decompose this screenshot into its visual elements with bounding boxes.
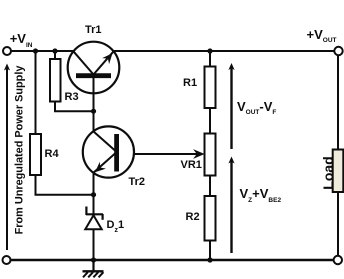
wire R2 bottom to 0V rail — [209, 241, 211, 261]
wire R3 bottom to Tr1 base node — [55, 102, 94, 112]
load resistor — [333, 150, 344, 193]
terminal 0V output — [334, 256, 342, 264]
terminal 0V input — [3, 256, 11, 264]
resistor R2 — [205, 196, 216, 241]
resistor R1 — [205, 67, 216, 109]
wire bottom 0V rail — [10, 259, 334, 261]
label +Vin — [10, 32, 33, 46]
label R3 — [65, 92, 79, 103]
junction dot Tr1 base node — [91, 109, 96, 114]
wire R1 to VR1 — [209, 108, 211, 134]
wire R1 top feed — [209, 51, 211, 67]
resistor R3 — [50, 59, 61, 102]
potentiometer VR1 — [205, 134, 216, 176]
wire Vout drop to load — [337, 55, 339, 150]
resistor R4 — [30, 134, 41, 175]
label +Vout — [307, 28, 337, 42]
terminal +Vout — [334, 47, 342, 55]
label Load — [321, 156, 335, 189]
wire Tr1 base down to Tr2 collector — [93, 108, 95, 132]
terminal +Vin — [3, 47, 11, 55]
wire R4 bottom to zener node — [36, 175, 94, 195]
wire top rail right segment — [112, 50, 335, 52]
label From Unregulated Power Supply — [15, 66, 26, 235]
label R4 — [45, 149, 59, 160]
annotation arrow Vz+Vbe2 — [228, 157, 234, 254]
wire load bottom to 0V terminal — [337, 192, 339, 256]
label R1 — [183, 78, 197, 89]
label Vout-VF — [237, 100, 276, 114]
wire top rail left segment — [10, 50, 75, 52]
junction dot R3 top — [52, 48, 57, 53]
annotation arrow Vout-VF — [228, 63, 234, 149]
junction dot R4 top — [33, 48, 38, 53]
label Vz+Vbe2 — [240, 187, 282, 201]
label Dz1 — [107, 220, 125, 231]
junction dot R1 top — [207, 48, 212, 53]
label Tr1 — [85, 25, 102, 36]
wire Tr2 emitter down to zener — [93, 171, 95, 214]
junction dot ground node — [91, 257, 96, 262]
wire R4 feed from +Vin rail — [35, 51, 37, 134]
VR1 wiper arrowhead — [193, 149, 205, 159]
transistor Tr2 — [83, 126, 134, 177]
zener diode Dz1 — [85, 207, 103, 230]
wire zener anode to 0V rail — [93, 229, 95, 260]
annotation arrow from unregulated supply — [4, 64, 10, 251]
junction dot zener top node — [91, 192, 96, 197]
wire VR1 wiper from Tr2 base — [117, 153, 197, 155]
label VR1 — [181, 160, 202, 171]
wire VR1 to R2 — [209, 176, 211, 197]
label Tr2 — [129, 177, 146, 188]
wire R3 feed from +Vin rail — [54, 51, 56, 59]
transistor Tr1 — [68, 42, 120, 112]
ground symbol — [83, 260, 104, 277]
junction dot R2 bottom node — [207, 257, 212, 262]
label R2 — [186, 212, 200, 223]
